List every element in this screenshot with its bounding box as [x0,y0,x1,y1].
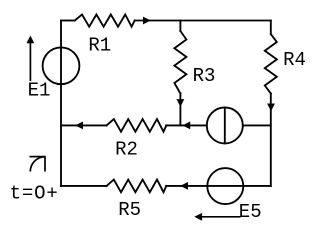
svg-text:E5: E5 [239,201,262,223]
svg-text:R4: R4 [283,49,306,71]
svg-text:R3: R3 [193,65,216,87]
svg-text:t=O+: t=O+ [10,183,59,205]
svg-text:R1: R1 [88,35,111,57]
svg-text:R2: R2 [115,139,138,161]
svg-text:R5: R5 [118,199,141,221]
svg-text:E1: E1 [28,80,51,102]
